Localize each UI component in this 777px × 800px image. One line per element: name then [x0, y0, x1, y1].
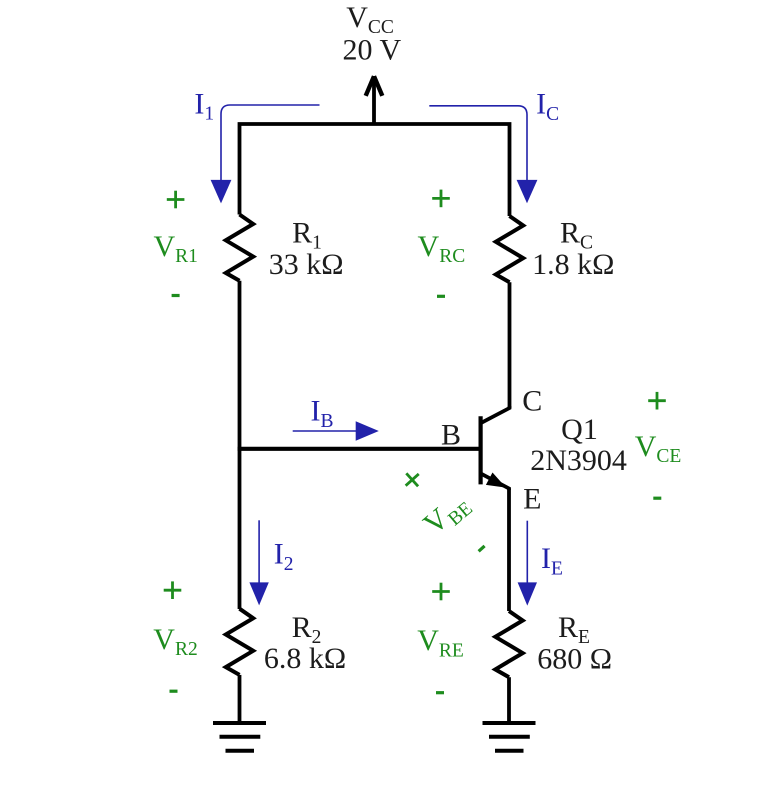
svg-text:I2: I2 — [274, 538, 294, 575]
ground (left) — [213, 723, 266, 751]
label - (VBE, rotated) — [479, 546, 485, 551]
resistor R2 — [226, 609, 253, 675]
label + (VRE) — [432, 583, 450, 601]
resistor RC — [496, 216, 523, 282]
current arrow IE wire — [526, 521, 528, 583]
label + (VCE) — [648, 392, 666, 410]
label + (VR2) — [164, 581, 182, 599]
svg-text:20 V: 20 V — [342, 34, 401, 67]
svg-text:6.8 kΩ: 6.8 kΩ — [264, 642, 346, 675]
wire R2 to ground — [238, 675, 242, 723]
svg-text:VRC: VRC — [418, 230, 466, 267]
current arrowhead I2 — [249, 582, 268, 605]
svg-text:VCE: VCE — [635, 430, 682, 467]
transistor Q1 emitter lead — [481, 473, 509, 490]
transistor Q1 collector lead — [481, 406, 510, 423]
svg-text:VR1: VR1 — [153, 230, 197, 267]
svg-text:IC: IC — [536, 88, 559, 125]
wire top rail — [240, 124, 510, 216]
transistor Q1 base bar — [479, 416, 483, 484]
wire left lower (R1 to node B to R2) — [238, 281, 242, 609]
current arrowhead IC — [517, 180, 538, 203]
svg-text:E: E — [523, 482, 541, 515]
svg-text:1.8 kΩ: 1.8 kΩ — [532, 248, 614, 281]
current arrowhead I1 — [211, 180, 232, 204]
svg-text:33 kΩ: 33 kΩ — [269, 248, 344, 281]
resistor R1 — [226, 215, 253, 281]
label - (VR1) — [172, 294, 180, 297]
label - (VCE) — [653, 497, 661, 500]
svg-text:VRE: VRE — [417, 624, 464, 661]
svg-text:VR2: VR2 — [153, 623, 197, 660]
label - (VRE) — [436, 691, 444, 694]
svg-text:VCC: VCC — [346, 1, 394, 38]
label + (VRC) — [432, 190, 450, 208]
svg-text:2N3904: 2N3904 — [530, 444, 627, 477]
svg-text:IB: IB — [310, 395, 333, 432]
node Vcc arrow — [372, 76, 376, 124]
wire emitter to RE — [507, 489, 511, 612]
svg-text:680 Ω: 680 Ω — [537, 643, 612, 676]
svg-text:C: C — [522, 384, 542, 417]
current arrow I1 wire — [221, 105, 320, 180]
Vcc arrowhead — [366, 76, 383, 96]
resistor RE — [495, 611, 522, 677]
current arrow IC wire — [429, 106, 527, 180]
svg-text:VBE: VBE — [417, 486, 477, 544]
label + (VR1) — [167, 191, 185, 209]
wire base (node B to Q1 base) — [238, 447, 479, 451]
svg-text:I1: I1 — [194, 87, 214, 124]
label - (VR2) — [170, 690, 178, 693]
ground (right) — [483, 723, 536, 751]
wire RC to collector — [508, 282, 512, 408]
current arrowhead IE — [518, 582, 537, 605]
svg-text:Q1: Q1 — [561, 413, 598, 446]
transistor Q1 emitter arrowhead — [486, 473, 506, 488]
svg-text:IE: IE — [541, 542, 563, 579]
current arrowhead IB — [356, 421, 379, 440]
label - (VRC) — [437, 295, 445, 298]
current arrow IB wire — [293, 430, 356, 432]
label + (VBE, rotated as x) — [400, 467, 425, 492]
svg-text:B: B — [441, 419, 461, 452]
wire RE to ground — [507, 677, 511, 723]
current arrow I2 wire — [258, 520, 260, 583]
